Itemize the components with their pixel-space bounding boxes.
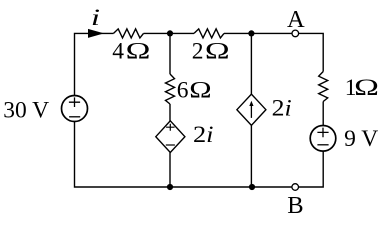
wire top right to node A [224,32,292,34]
wire bottom from node B to left corner [75,122,292,188]
resistor 4ohm [114,29,144,38]
source 9V circle [310,126,336,152]
svg-text:B: B [287,192,303,215]
svg-text:A: A [287,6,305,33]
resistor 6ohm [166,74,175,104]
node B terminal [292,184,299,191]
junction dot top left [167,30,173,36]
wire branch 6ohm top [169,33,171,74]
resistor 1ohm [319,72,328,102]
svg-text:Ω: Ω [189,77,211,103]
svg-text:Ω: Ω [354,75,379,101]
svg-text:Ω: Ω [205,38,230,64]
wire 9V to bottom corner [299,151,323,187]
current arrow i [88,29,104,38]
wire current source to bottom [250,125,252,187]
svg-text:i: i [91,5,100,30]
dependent current source diamond 2i [237,94,266,125]
9V plus [317,128,328,138]
svg-text:2i: 2i [272,96,292,122]
svg-text:4: 4 [112,38,124,64]
wire branch current source top [250,33,252,94]
svg-text:Ω: Ω [126,38,151,64]
junction dot bottom left [167,184,173,190]
diamond minus [166,144,175,146]
wire 6ohm to diamond [169,104,171,121]
wire 1ohm to 9V [322,102,324,126]
source 30V circle [62,96,88,122]
svg-text:9 V: 9 V [344,126,378,152]
svg-text:2i: 2i [193,122,214,148]
svg-text:2: 2 [192,38,204,64]
node A terminal [292,30,299,37]
wire node A to corner [299,33,323,71]
resistor 2ohm [194,29,224,38]
svg-text:30 V: 30 V [3,98,49,124]
wire diamond to bottom [169,153,171,188]
wire top left segment [75,33,114,95]
9V minus [317,144,328,146]
30V minus [69,116,80,118]
current source arrow [250,104,252,118]
junction dot top right [248,30,254,36]
dependent source diamond 2i (voltage) [156,121,185,153]
junction dot bottom right [249,184,255,190]
svg-text:6: 6 [177,78,189,104]
30V plus [69,97,80,107]
diamond plus [166,124,175,131]
wire top middle [144,32,195,34]
